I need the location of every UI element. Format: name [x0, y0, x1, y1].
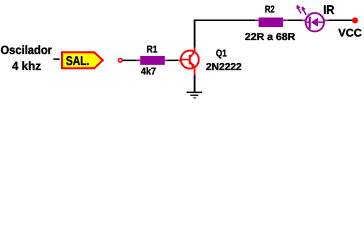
svg-text:Oscilador: Oscilador [1, 43, 53, 57]
wire: Q1 emitter to ground [194, 75, 196, 92]
svg-text:2N2222: 2N2222 [206, 62, 242, 73]
LED IR (infrared emitting diode) [297, 6, 328, 32]
wire: R1 to Q1 base [167, 60, 178, 62]
resistor R1 [137, 56, 168, 65]
oscillator block label "Oscilador 4 khz" [1, 43, 53, 73]
resistor R2 [255, 18, 287, 28]
node: open input terminal pin [118, 58, 122, 62]
svg-text:R1: R1 [147, 45, 158, 56]
wire: top horizontal to R2 [194, 20, 256, 22]
transistor Q1 (NPN 2N2222) [178, 47, 199, 75]
svg-text:Q1: Q1 [216, 49, 227, 60]
svg-text:IR: IR [323, 3, 334, 17]
wire: node to R1 [123, 60, 137, 62]
wire: oscillator output stub [53, 58, 59, 60]
svg-text:SAL.: SAL. [66, 54, 90, 68]
svg-text:R2: R2 [265, 4, 275, 15]
svg-text:4 khz: 4 khz [12, 59, 41, 73]
node VCC (junction dot) [352, 17, 358, 23]
wire: R2 to LED [288, 20, 303, 22]
ground [187, 92, 203, 99]
wire: Q1 collector vertical [194, 20, 196, 48]
svg-text:4k7: 4k7 [141, 66, 156, 77]
svg-text:22R a 68R: 22R a 68R [245, 32, 296, 43]
svg-text:VCC: VCC [338, 28, 362, 40]
tag SAL. (output flag) [62, 52, 103, 68]
wire: LED to VCC [328, 20, 352, 22]
